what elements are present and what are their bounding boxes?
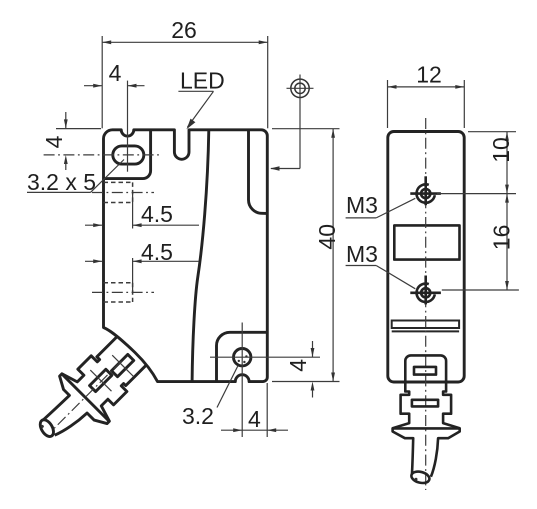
M3 hole 1 <box>421 189 430 198</box>
thin bar <box>392 321 459 329</box>
dim 4 bottom <box>266 383 268 437</box>
side body <box>388 132 464 383</box>
slanted face line <box>192 130 209 382</box>
window rect <box>394 225 459 259</box>
dim 4.5 #2 <box>132 258 134 292</box>
svg-text:16: 16 <box>489 225 515 251</box>
dim 26 <box>101 36 103 128</box>
svg-text:M3: M3 <box>346 192 378 218</box>
boot outline <box>28 322 161 455</box>
hole 3.2 circle <box>234 349 251 366</box>
svg-text:4.5: 4.5 <box>141 201 173 227</box>
dim 4.5 #1 <box>132 193 134 229</box>
side boot <box>393 355 460 476</box>
hidden hole 2 <box>104 282 133 284</box>
hidden hole 1 <box>104 181 133 183</box>
dim 40 <box>272 128 340 130</box>
dim 12 <box>387 80 389 128</box>
slot 3.2x5 obround <box>113 146 144 164</box>
svg-text:4.5: 4.5 <box>141 239 173 265</box>
cable boot left (rotated 45, same profile as side view boot) <box>22 322 161 461</box>
front body outline <box>103 130 267 382</box>
svg-text:10: 10 <box>488 137 514 163</box>
svg-text:3.2 x 5: 3.2 x 5 <box>27 169 96 195</box>
svg-text:3.2: 3.2 <box>182 403 214 429</box>
tip ellipse <box>37 417 56 438</box>
svg-text:40: 40 <box>314 224 340 250</box>
flange top edge <box>62 374 109 421</box>
boot centerline <box>53 361 122 430</box>
dim 4 top <box>127 81 129 172</box>
crosshair leader <box>299 102 301 169</box>
svg-text:26: 26 <box>171 17 197 43</box>
dim 4 left <box>56 128 101 130</box>
hole centerlines <box>210 356 320 358</box>
slot A (along axis) <box>111 354 133 376</box>
slot horizontal centerline <box>44 154 162 156</box>
svg-text:4: 4 <box>41 135 67 148</box>
svg-text:LED: LED <box>180 68 225 94</box>
svg-text:4: 4 <box>248 406 261 432</box>
M3 hole 2 <box>421 288 430 297</box>
svg-text:4: 4 <box>109 60 122 86</box>
top-right step interior line <box>248 130 266 214</box>
slot B (along axis) <box>90 369 112 391</box>
svg-text:4: 4 <box>285 359 311 372</box>
side centerline <box>425 118 427 490</box>
dim 10 <box>468 131 516 133</box>
dim 16 <box>442 289 519 291</box>
dim 4 right <box>312 341 314 357</box>
optical axis crosshair <box>291 79 309 97</box>
svg-text:12: 12 <box>416 62 442 88</box>
svg-text:M3: M3 <box>346 241 378 267</box>
bottom-right ear interior line <box>217 332 268 381</box>
top-left ear interior line <box>104 130 151 179</box>
